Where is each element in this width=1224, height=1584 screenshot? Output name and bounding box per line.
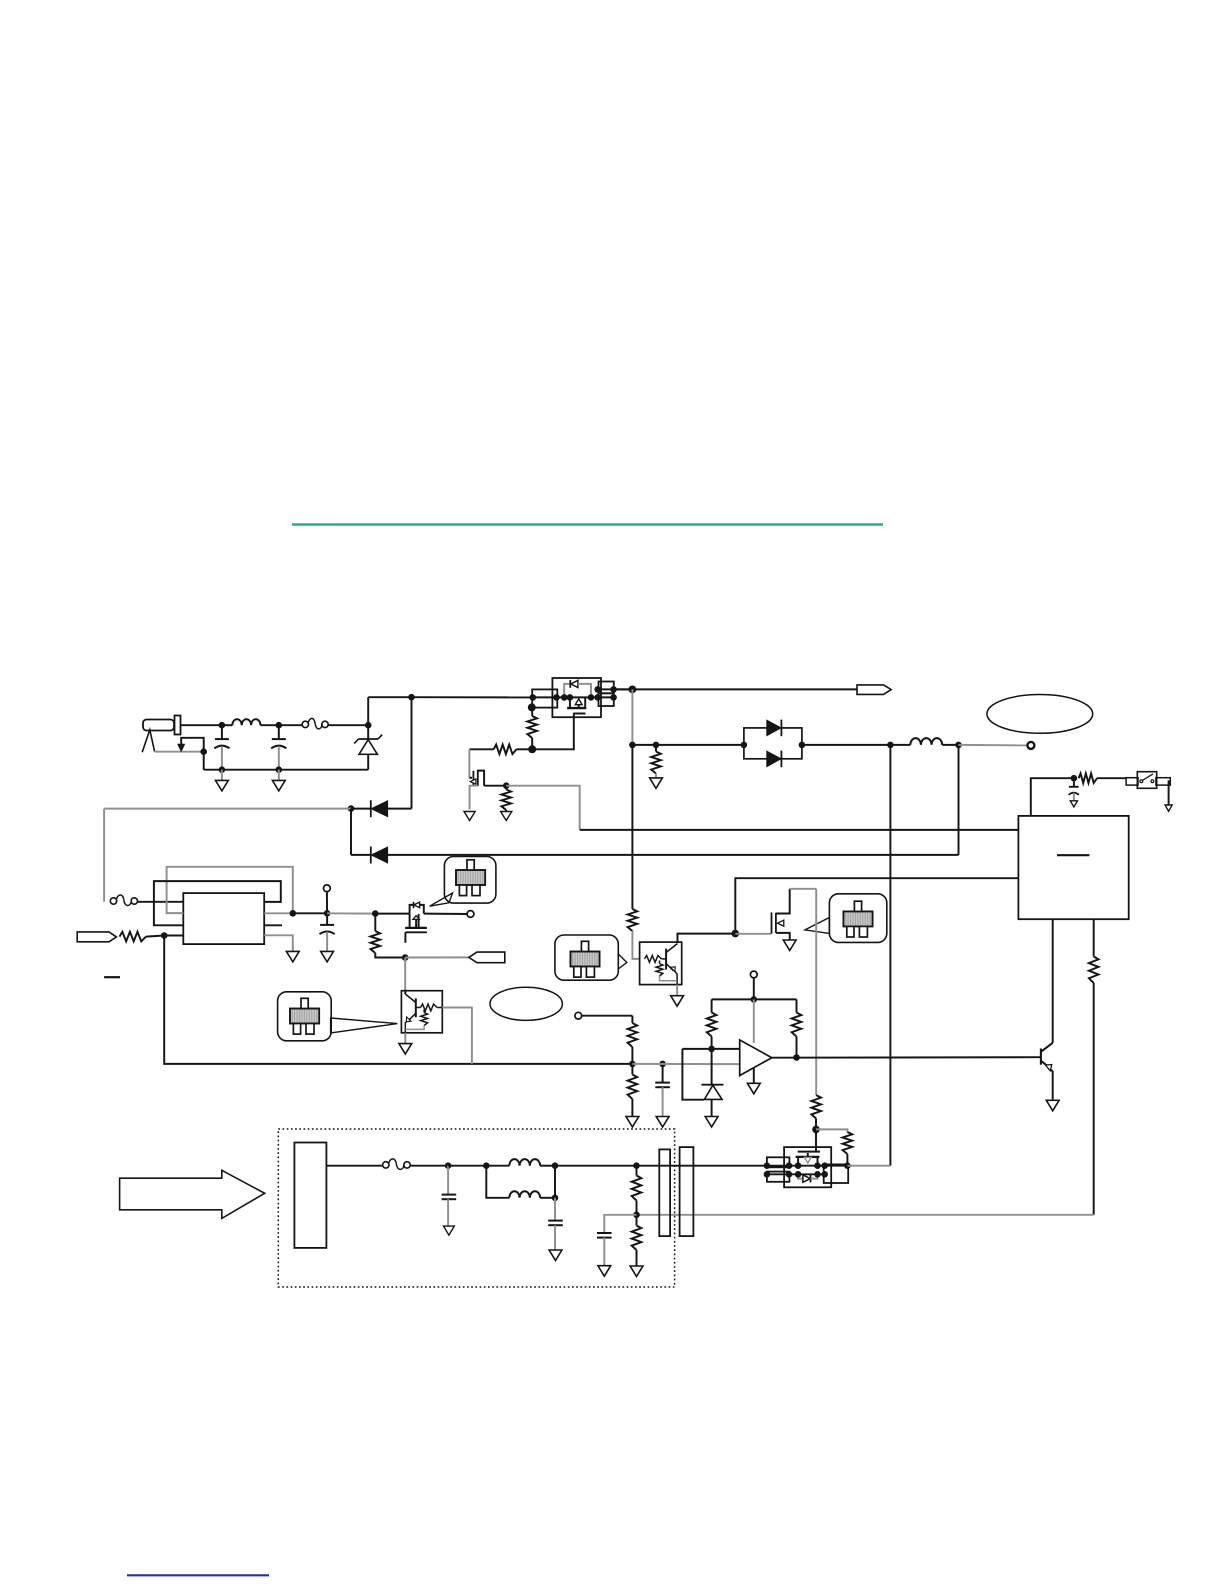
inductor L1 (222, 719, 279, 725)
T1 bottom left pin (164, 935, 183, 937)
wire jack tip to node A (181, 724, 222, 726)
capacitor C3 (320, 913, 335, 951)
junction C2 bottom (276, 766, 283, 773)
junction T1 gate node (161, 932, 168, 939)
junction L4 out (552, 1195, 559, 1202)
resistor R14 (637, 919, 1099, 1215)
wire T1 to C3 node (293, 912, 327, 914)
resistor R5 (120, 932, 165, 942)
U3 row2 wire (767, 1173, 824, 1175)
clamp loop wire (682, 1049, 704, 1100)
wire D1 to input filter (104, 809, 351, 902)
junction C1 bottom (219, 766, 226, 773)
capacitor C8 (597, 1215, 637, 1266)
ground for T1 pin (286, 951, 299, 962)
wire IC pin to Q4 gate (735, 878, 1018, 933)
U1 right pin upper (599, 682, 614, 694)
U3 right pin (824, 1164, 849, 1183)
junction comparator supply (751, 996, 758, 1003)
teal divider line (292, 523, 883, 526)
nmos Q2 (469, 770, 484, 810)
junction C4 tap (659, 1061, 666, 1068)
gate node junction (528, 745, 536, 753)
ground for Q6 (1046, 1100, 1059, 1111)
junction R4 top (653, 742, 660, 749)
resistor R2 gate drive (469, 745, 532, 755)
junction D4D5 left (741, 742, 748, 749)
T1 bottom right pin (264, 935, 293, 951)
wire VIN up to top rail (368, 697, 411, 725)
Q2 drain wire (484, 785, 506, 787)
ground for C1 (216, 770, 229, 791)
switch SW1 (1126, 772, 1170, 789)
junction FB divider (629, 1061, 636, 1068)
terminal circle T1 out (324, 885, 331, 913)
ellipse callout E2 (490, 987, 562, 1020)
resistor R8 (628, 1016, 638, 1064)
transformer T1 box (183, 893, 264, 944)
ellipse callout E1 (987, 695, 1093, 734)
fuse F3 (383, 1159, 449, 1170)
inductor L2 (910, 738, 942, 745)
inductor L4 (486, 1166, 555, 1198)
resistor R11 hysteresis (792, 999, 802, 1057)
node VIN junction (365, 722, 372, 729)
top rail after U1 (614, 688, 857, 690)
Q5 internals (405, 991, 442, 1033)
junction battery divider top (633, 1162, 640, 1169)
resistor R7 on VIN divider (628, 745, 640, 959)
feedback wire left (164, 936, 632, 1064)
minus dash label (104, 976, 120, 978)
resistor R15 (1079, 773, 1127, 783)
resistor R16 (632, 1166, 642, 1215)
pmos Q3 (375, 902, 427, 943)
junction U3 gate node (812, 1126, 820, 1134)
capacitor C4 (655, 1064, 670, 1117)
battery section dotted box (278, 1129, 674, 1287)
bottom ground rail (204, 769, 369, 771)
load switch U3 box (784, 1147, 831, 1187)
battery holder BT1 (294, 1143, 326, 1248)
ic U4 box (1018, 816, 1128, 919)
T1 winding loop outer (167, 867, 293, 914)
wire to output terminal (959, 744, 1027, 747)
junction battery node1 (445, 1162, 452, 1169)
resistor R1 gate pull-up (527, 703, 537, 749)
blue footer link line (127, 1574, 269, 1576)
U1 mosfet symbol (567, 698, 586, 714)
U1 gate lead (532, 714, 574, 750)
ground for Q7 (671, 985, 684, 1007)
wire to connector (555, 1165, 767, 1167)
capacitor C7 (548, 1198, 563, 1250)
connector bar CN1b (680, 1147, 694, 1236)
diode pair box D4 D5 (744, 720, 802, 768)
ground for Q4 drain (783, 940, 796, 951)
wire battery node2 (448, 1165, 486, 1167)
ground for Q5 (399, 1033, 412, 1054)
junction Q3 gate node (402, 954, 409, 961)
resistor R10 (707, 999, 717, 1049)
U3 mosfet symbol (796, 1152, 820, 1166)
U3 left pin lower (767, 1172, 790, 1182)
wire VOUT down to 5V rail (631, 689, 633, 745)
opamp output wire (772, 1056, 1041, 1059)
ground for D6 (705, 1117, 718, 1128)
ferrite bead FB2 (110, 895, 183, 906)
wire C3 node to R6 (327, 912, 375, 914)
jack switch contact arrow (155, 738, 204, 770)
T1 right stub pin (264, 924, 282, 926)
capacitor C2 (271, 725, 286, 770)
wire R2 to Q2 gate (468, 749, 470, 771)
U1 wire row1 out (598, 688, 633, 690)
U3 body diode (798, 1174, 817, 1182)
wire U3 out to backup rail (847, 1165, 890, 1167)
junction opamp output (793, 1054, 800, 1061)
ground for C4 (656, 1117, 669, 1128)
junction U2 in+ (708, 1046, 715, 1053)
junction D1 anode-left (348, 805, 355, 812)
wire L3-L4 tie (554, 1166, 556, 1198)
wire battery out (326, 1165, 382, 1167)
callout balloon CC for Q7 (555, 935, 627, 980)
output terminal ring (1027, 742, 1034, 749)
U3 left pin upper (767, 1157, 790, 1167)
wire to U3 gate (815, 1129, 817, 1151)
comparator rail (712, 998, 797, 1000)
wire backup feed down (889, 745, 891, 1166)
net label arrow enable (405, 952, 505, 963)
connector bar CN1a (659, 1149, 670, 1236)
U3 dots (764, 1162, 828, 1177)
wire Q5 base right (442, 1008, 472, 1064)
capacitor C6 (442, 1166, 457, 1226)
ground for R4 (650, 778, 663, 789)
block arrow (120, 1170, 265, 1218)
opamp U2 ground (747, 1068, 760, 1094)
junction C3 node (324, 910, 331, 917)
ground for C5 (1070, 801, 1077, 807)
opamp U2 in- wire (632, 1063, 739, 1065)
junction rail2 left (629, 742, 636, 749)
U4 label dash (1057, 854, 1089, 856)
power jack J1 (142, 716, 180, 753)
ground for R17 (630, 1266, 643, 1277)
ground for C7 (549, 1250, 562, 1261)
ground for C6 (444, 1226, 455, 1235)
junction battery divider mid (633, 1212, 640, 1219)
U4 top pin wire (1031, 778, 1074, 816)
junction Q4 gate node (732, 930, 740, 938)
diode D2 (351, 745, 959, 864)
wire down to D1 (411, 697, 413, 808)
top rail to U1 (412, 696, 534, 698)
rail2 wire left (632, 744, 744, 746)
opamp U2 triangle (740, 1040, 772, 1076)
capacitor C5 (1069, 778, 1079, 801)
resistor R13 (816, 1129, 852, 1165)
junction R6 top (372, 910, 379, 917)
resistor R9 (628, 1064, 638, 1117)
digital transistor Q5 box (401, 991, 442, 1033)
inductor L3 (486, 1159, 555, 1166)
junction C5 tap (1071, 775, 1078, 782)
junction T1 out (290, 910, 297, 917)
resistor R12 (811, 1095, 821, 1129)
capacitor C1 (214, 725, 229, 770)
terminal circle comparator supply (750, 971, 757, 999)
wire Q3 gate to opto1 (404, 958, 406, 991)
U1 dots (530, 686, 617, 701)
junction U3 out (844, 1162, 851, 1169)
junction on jack ground (200, 748, 207, 755)
net label arrow VOUT (857, 685, 891, 695)
ground for Q2 source (464, 812, 475, 821)
ferrite bead FB1 (279, 718, 368, 729)
junction L3 out (552, 1162, 559, 1169)
ground for C2 (272, 770, 285, 791)
ground for C8 (598, 1266, 611, 1277)
opamp U2 in+ wire (682, 1048, 739, 1050)
rail2 wire mid (802, 744, 910, 746)
ground for R9 (626, 1117, 639, 1128)
wire down to D2 (350, 809, 352, 855)
U1 body diode (564, 680, 591, 697)
resistor R4 (651, 745, 661, 778)
terminal circle FB input (575, 1012, 633, 1019)
junction backup feed (887, 742, 894, 749)
junction VOUT rail (629, 686, 637, 694)
junction battery node2 (483, 1162, 490, 1169)
net label arrow PWM (77, 932, 116, 942)
node B junction (276, 722, 283, 729)
U3 through wire (767, 1165, 848, 1167)
junction Q2 drain (503, 782, 510, 789)
junction L2 right (955, 742, 962, 749)
wire Q4 source down (815, 889, 817, 1095)
callout balloon CA for Q3 (430, 857, 496, 907)
bjt Q6 (1041, 919, 1053, 1100)
ground for SW1 (1165, 781, 1172, 811)
terminal circle Q3 source (424, 911, 474, 918)
top rail junction (408, 694, 415, 701)
Q7 internals (645, 944, 678, 985)
U1 through wire (533, 696, 614, 698)
digital transistor Q7 box (640, 942, 682, 985)
zener diode D3 (354, 725, 382, 770)
diode D6 clamp (702, 1049, 724, 1117)
ground for C3 (321, 951, 334, 962)
resistor R3 gate pulldown (501, 786, 511, 812)
callout balloon CD for Q4 (805, 894, 887, 943)
resistor R17 (632, 1215, 642, 1266)
node A junction (219, 722, 226, 729)
load switch U1 box (552, 678, 601, 717)
ground for R3 (501, 812, 512, 821)
resistor R6 (371, 914, 406, 958)
diode D1 (351, 800, 412, 817)
Q7 collector wire (678, 934, 736, 943)
opamp U2 supply wire (753, 999, 755, 1043)
pmos Q4 (735, 889, 816, 940)
wire Q2 drain to IC (506, 786, 1018, 830)
junction D4D5 right (799, 742, 806, 749)
U1 left pin (532, 689, 557, 707)
callout balloon CB for Q5 (278, 992, 398, 1041)
wire rail2 mid2 (942, 744, 958, 746)
U1 right pin lower (599, 693, 614, 706)
T1 winding loop inner (154, 881, 281, 925)
